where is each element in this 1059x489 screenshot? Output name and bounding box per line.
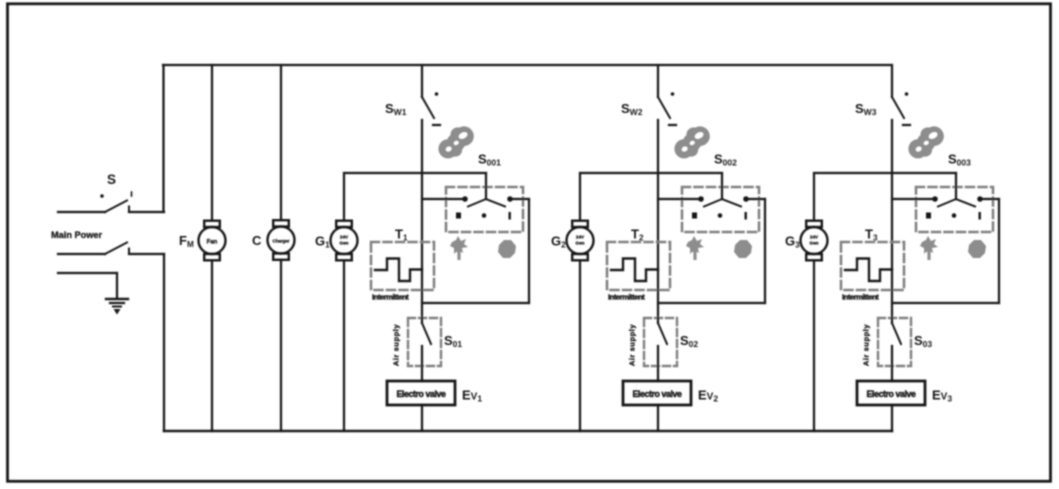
svg-text:Charger: Charger [273,239,290,244]
svg-text:T2: T2 [631,227,644,243]
svg-text:Air supply: Air supply [862,324,871,366]
wire: left pin to main line [658,198,699,200]
contactor S003 enclosure (dashed) [916,187,993,232]
svg-text:T3: T3 [865,227,878,243]
wire: left pin to main line [422,198,463,200]
contactor coil S002 (grey icon) [668,121,715,162]
svg-text:Intermittent: Intermittent [608,293,645,302]
svg-text:S02: S02 [680,333,698,349]
switch S pole 2 (bottom contact row) [58,243,164,255]
switch SW3 position marks [905,92,909,96]
wire: right pin loop [422,199,529,303]
switch S01 blade [422,318,431,381]
svg-text:EV1: EV1 [462,388,482,404]
contactor pin (left) [932,196,938,202]
svg-text:Main Power: Main Power [51,230,102,240]
wire: module horizontal node (junction at SW3 lead) [814,172,956,174]
wire: SW2 lower lead down to junction [657,120,659,318]
contactor pin (right) [507,196,513,202]
svg-text:EV3: EV3 [932,388,952,404]
svg-text:Air supply: Air supply [628,324,637,366]
contactor changeover blades [704,199,741,207]
svg-text:24V: 24V [810,235,819,240]
svg-text:Fan: Fan [207,240,218,246]
electrovalve EV3 box [857,381,925,405]
svg-text:S003: S003 [948,152,971,168]
contactor pin (right) [977,196,983,202]
svg-text:Electro valve: Electro valve [396,389,446,399]
wire: top supply bus [163,64,891,66]
wire: left down riser from switch S to bottom bus [163,254,165,431]
svg-text:C: C [252,233,262,248]
generator G2 [567,221,594,261]
svg-text:G3: G3 [785,234,800,250]
svg-text:Electro valve: Electro valve [632,389,682,399]
switch SW1 position marks [435,92,439,96]
svg-text:24V: 24V [340,235,349,240]
svg-text:T1: T1 [395,227,408,243]
timer T2 enclosure (dashed) [607,242,670,290]
wire: EV3 to bottom bus [891,405,893,431]
svg-text:Electro valve: Electro valve [866,389,916,399]
air-supply switch S02 enclosure (dashed) [644,318,677,366]
svg-text:Intermittent: Intermittent [842,293,879,302]
wire: right pin loop [892,199,999,303]
wire: charger C drop from top bus [280,65,282,220]
wire: G2 to bottom bus [579,261,581,431]
contactor S002 enclosure (dashed) [682,187,759,232]
switch SW1 blade [422,97,434,118]
switch SW3 blade [892,97,904,118]
svg-text:S01: S01 [444,333,462,349]
svg-text:SW2: SW2 [621,101,643,117]
timer T3 pulse waveform [845,259,892,282]
wire: module horizontal node (junction at SW2 lead) [580,172,722,174]
wire: G3 to bottom bus [813,261,815,431]
svg-text:Intermittent: Intermittent [372,293,409,302]
wire: FM to bottom bus [211,261,213,431]
wire: generator G2 drop [579,173,581,220]
timer T1 enclosure (dashed) [371,242,434,290]
svg-text:EV2: EV2 [698,388,718,404]
wire: fan motor FM drop from top bus [211,65,213,220]
wire: module horizontal node (junction at SW1 lead) [344,172,486,174]
switch SW2 position marks [671,92,675,96]
svg-text:24V: 24V [576,235,585,240]
wire: G1 to bottom bus [343,261,345,431]
spark icon (grey) [920,236,938,260]
spark icon (grey) [686,236,704,260]
flame blob icon (grey) [968,240,986,258]
svg-text:Gen: Gen [340,241,349,246]
electrovalve EV1 box [387,381,455,405]
wire: EV1 to bottom bus [421,405,423,431]
timer T3 enclosure (dashed) [841,242,904,290]
charger C [268,220,295,260]
wire: left riser from switch S to top bus [162,65,164,212]
contactor terminal marks [456,212,511,220]
contactor changeover blades [468,199,505,207]
wire: SW2 drop from top bus [657,65,659,97]
contactor terminal marks [926,212,981,220]
svg-text:Gen: Gen [576,241,585,246]
svg-text:FM: FM [179,233,194,249]
svg-text:SW1: SW1 [385,101,407,117]
wire: ground branch [58,273,117,297]
wire: right pin loop [658,199,765,303]
fan motor FM [199,221,226,261]
contactor pin (right) [743,196,749,202]
contactor pin (left) [462,196,468,202]
air-supply switch S01 enclosure (dashed) [408,318,441,366]
contactor changeover blades [938,199,975,207]
svg-text:Gen: Gen [810,241,819,246]
contactor pin (left) [698,196,704,202]
switch SW2 blade [658,97,670,118]
wire: EV2 to bottom bus [657,405,659,431]
timer T2 pulse waveform [611,259,658,282]
wire: SW3 drop from top bus [891,65,893,97]
spark icon (grey) [450,236,468,260]
wire: bottom return bus [164,430,892,433]
svg-text:S002: S002 [714,152,737,168]
electrovalve EV2 box [623,381,691,405]
flame blob icon (grey) [498,240,516,258]
switch S03 blade [892,318,901,381]
generator G3 [801,221,828,261]
contactor S001 enclosure (dashed) [446,187,523,232]
wire: left pin to main line [892,198,933,200]
wire: generator G3 drop [813,173,815,220]
contactor terminal marks [692,212,747,220]
contactor coil S001 (grey icon) [432,121,479,162]
svg-text:SW3: SW3 [855,101,877,117]
generator G1 [331,221,358,261]
switch S02 blade [658,318,667,381]
svg-text:G1: G1 [315,234,330,250]
switch S pole 1 (top contact row) [58,201,164,213]
wire: C to bottom bus [280,261,282,432]
wire: SW1 drop from top bus [421,65,423,97]
flame blob icon (grey) [734,240,752,258]
wire: SW3 lower lead down to junction [891,120,893,318]
svg-text:S001: S001 [478,152,501,168]
ground symbol [106,299,128,315]
wire: SW1 lower lead down to junction [421,120,423,318]
switch S position marks [100,194,104,198]
svg-text:S: S [107,172,116,187]
wire: contactor common feed [955,173,957,199]
wire: generator G1 drop [343,173,345,220]
svg-text:G2: G2 [551,234,566,250]
svg-text:Air supply: Air supply [392,324,401,366]
svg-text:S03: S03 [914,333,932,349]
timer T1 pulse waveform [375,259,422,282]
wire: contactor common feed [721,173,723,199]
contactor coil S003 (grey icon) [902,121,949,162]
air-supply switch S03 enclosure (dashed) [878,318,911,366]
wire: contactor common feed [485,173,487,199]
